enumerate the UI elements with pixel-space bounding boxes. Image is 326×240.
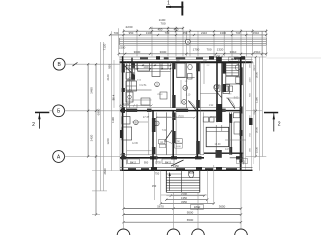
interior wall axis B (horizontal): [120, 108, 241, 112]
faint line to right edge: [266, 57, 321, 59]
svg-text:ПОЛ: ПОЛ: [178, 116, 184, 119]
extra furniture NW: [138, 63, 171, 105]
section marker 2 (left): [32, 112, 49, 129]
axis bubble 2 (bottom): [167, 229, 180, 240]
top dimension row small (1100/700): [126, 18, 185, 29]
door leaf center-left: [188, 101, 196, 111]
kitchen counter NW: [126, 73, 167, 103]
room tag 1 (SW): [134, 120, 139, 125]
terrace label P in circle: [185, 39, 190, 44]
svg-text:6500: 6500: [187, 218, 194, 222]
svg-text:1735: 1735: [155, 161, 161, 165]
svg-text:700: 700: [165, 31, 170, 35]
svg-text:1300: 1300: [220, 31, 227, 35]
axis line A: [65, 156, 121, 158]
vertical extension lines above plan: [124, 27, 267, 57]
svg-text:1530: 1530: [254, 146, 258, 153]
svg-text:750: 750: [155, 171, 160, 175]
porch outline: [161, 194, 208, 197]
svg-text:1800: 1800: [194, 205, 201, 209]
section marker 1 (top): [166, 1, 183, 16]
interior wall axis 3: [196, 62, 200, 158]
NE fixtures detail: [214, 55, 238, 92]
extra wall piers: [120, 56, 253, 170]
svg-text:3000: 3000: [254, 71, 258, 78]
svg-text:3350: 3350: [181, 200, 187, 204]
north wall (axis V): [120, 57, 253, 62]
main top dimension line: [118, 46, 268, 59]
svg-text:3000: 3000: [254, 126, 258, 133]
svg-text:450: 450: [174, 27, 179, 31]
top dimension row 3: [109, 31, 268, 36]
svg-text:7120: 7120: [103, 43, 107, 50]
interior wall x~230 (SE): [229, 112, 232, 154]
svg-text:ВК-2: ВК-2: [130, 161, 136, 165]
svg-text:700: 700: [236, 31, 241, 35]
door leaf center: [215, 90, 221, 97]
svg-text:1190: 1190: [111, 117, 115, 123]
svg-text:3000: 3000: [134, 50, 141, 54]
svg-text:1200: 1200: [250, 77, 252, 83]
section marker 2 (right): [264, 112, 281, 132]
svg-text:6900: 6900: [96, 108, 100, 115]
interior dim chain SW room: [119, 105, 196, 155]
svg-text:150: 150: [152, 184, 157, 188]
svg-text:5670: 5670: [157, 204, 164, 208]
axis line V: [65, 62, 120, 66]
door leaf NE: [228, 98, 235, 109]
axis bubble A (left bottom): [53, 151, 65, 163]
right dimension column lines: [246, 31, 267, 170]
interior wall axis 2: [171, 62, 177, 158]
svg-text:950: 950: [144, 161, 149, 165]
junction blobs B wall: [121, 109, 222, 158]
svg-text:950: 950: [129, 31, 134, 35]
interior wall axis A: [120, 153, 243, 159]
svg-text:1300: 1300: [146, 31, 153, 35]
svg-text:1350: 1350: [181, 196, 187, 200]
interior dim chain NE: [201, 63, 247, 155]
svg-text:ПС: ПС: [177, 141, 181, 143]
heavy interior wall x~216-222: [216, 57, 222, 122]
axis bubble V (left top): [53, 58, 65, 70]
axis bubble B (left middle): [53, 105, 65, 117]
axis bubble 4 (bottom): [235, 229, 248, 240]
room tag 4: [183, 86, 188, 91]
svg-text:1: 1: [167, 1, 170, 7]
svg-text:12.80: 12.80: [132, 143, 138, 145]
bottom main dimension row 2: [122, 211, 242, 216]
west wall (axis 1): [120, 56, 127, 170]
wc fixture above stairs: [189, 171, 194, 178]
svg-text:1510: 1510: [253, 31, 260, 35]
door swing arcs: [125, 66, 235, 110]
extra interior texture pass 2: [126, 63, 241, 155]
svg-text:1180: 1180: [254, 97, 258, 103]
label boxes middle rooms: [159, 139, 183, 149]
svg-text:ДК-2: ДК-2: [231, 58, 237, 61]
svg-text:700: 700: [160, 22, 165, 26]
svg-text:ПР-2: ПР-2: [158, 94, 164, 96]
south wall: [120, 167, 253, 170]
svg-text:2230: 2230: [126, 25, 133, 29]
bathroom fixtures center: [177, 63, 192, 79]
svg-text:3420: 3420: [89, 134, 93, 141]
furniture SW: [122, 117, 132, 141]
boxed window labels south: [128, 159, 175, 164]
svg-text:3000: 3000: [160, 50, 167, 54]
room tag 5 (NE): [214, 85, 219, 90]
svg-text:3.10: 3.10: [186, 95, 191, 97]
bottom vertical extension lines: [124, 165, 242, 229]
svg-text:ПР: ПР: [160, 142, 164, 144]
room tag 3: [155, 121, 160, 126]
svg-text:ОК-2: ОК-2: [254, 109, 256, 115]
attic ladder NE: [226, 63, 239, 76]
pier column NE: [223, 62, 226, 92]
svg-text:ВК-4: ВК-4: [112, 94, 116, 100]
svg-text:1220: 1220: [106, 138, 110, 144]
svg-text:1.92: 1.92: [209, 105, 214, 107]
svg-text:2640: 2640: [103, 168, 107, 174]
east wall (axis 4): [240, 57, 254, 171]
exterior stairs: [166, 171, 200, 193]
svg-text:ОК-3: ОК-3: [254, 65, 256, 71]
axis bubble 1 (bottom): [117, 229, 130, 240]
door leaf NW: [125, 66, 135, 76]
svg-text:ОК-2: ОК-2: [214, 55, 220, 59]
svg-text:950: 950: [108, 64, 112, 69]
svg-text:2110: 2110: [201, 31, 207, 35]
svg-text:700: 700: [114, 31, 119, 35]
partition NW x~132: [127, 58, 135, 80]
axis line B: [65, 110, 121, 112]
svg-text:2: 2: [32, 122, 35, 128]
svg-text:П: П: [187, 40, 189, 44]
svg-text:9500: 9500: [187, 211, 194, 215]
svg-text:450: 450: [158, 27, 163, 31]
svg-text:1510: 1510: [254, 50, 261, 54]
svg-text:700: 700: [206, 48, 211, 52]
svg-text:14.56: 14.56: [225, 149, 231, 151]
axis bubble 3 (bottom): [192, 229, 205, 240]
left rotated dimension texts: [89, 43, 115, 174]
bottom main dimension row 1: [122, 204, 242, 209]
svg-text:15.90: 15.90: [210, 116, 217, 119]
svg-text:3010: 3010: [230, 50, 237, 54]
svg-text:2: 2: [278, 122, 281, 128]
cabinet top middle: [138, 63, 161, 77]
interior partition lines: [126, 62, 241, 154]
terrace deck band: [120, 38, 267, 45]
room tag 2 (NW): [155, 82, 160, 87]
svg-text:1320: 1320: [217, 48, 224, 52]
svg-text:3480: 3480: [89, 87, 93, 94]
svg-text:450: 450: [183, 31, 188, 35]
door leaf near stairs: [171, 160, 184, 166]
bathroom fixtures NE: [223, 65, 240, 94]
door leaf SW: [165, 130, 173, 143]
misc small texts in plan: [123, 72, 217, 119]
svg-text:15.90: 15.90: [215, 143, 222, 146]
svg-text:1500: 1500: [119, 46, 126, 50]
svg-text:900: 900: [131, 66, 136, 69]
room tag 6: [182, 100, 187, 105]
extra tiny texts scatter: [132, 60, 239, 151]
svg-text:1700: 1700: [193, 48, 200, 52]
stair up arrow: [169, 172, 171, 191]
svg-text:1200: 1200: [143, 66, 149, 69]
window labels VK row: [130, 159, 248, 188]
furniture along axis B wall: [203, 113, 240, 122]
svg-text:1350: 1350: [173, 164, 179, 168]
svg-text:ВК-2: ВК-2: [165, 161, 171, 165]
stair dimension rows: [160, 192, 215, 205]
svg-text:2120: 2120: [106, 74, 110, 80]
bottom main dimension row 3: [122, 218, 242, 223]
interior wall short (below axis B, x~152): [152, 111, 156, 168]
svg-text:3650: 3650: [219, 204, 226, 208]
right rotated dimension texts: [250, 63, 259, 153]
large furniture rectangle SE: [206, 127, 229, 146]
svg-text:7.64: 7.64: [162, 130, 167, 132]
svg-text:ВК-1: ВК-1: [239, 159, 245, 163]
left dimension column lines: [87, 28, 122, 216]
interior dim chain NW room: [126, 63, 172, 108]
top dimension row 2: [122, 27, 267, 32]
svg-text:h=2.51: h=2.51: [139, 85, 147, 87]
